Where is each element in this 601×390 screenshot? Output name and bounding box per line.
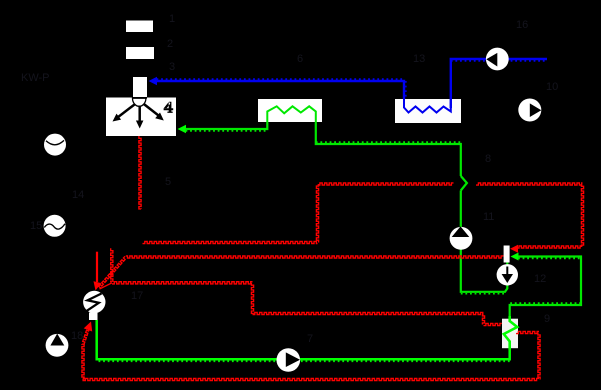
injection bar	[504, 246, 510, 263]
spray chamber 4	[106, 98, 176, 137]
label 17l	[131, 290, 143, 302]
svg-text:7: 7	[307, 333, 313, 345]
pump 8 (bottom green line)	[277, 348, 301, 372]
green pipe return to mixing valve	[510, 257, 581, 319]
pump 12 (down arrow)	[497, 264, 518, 285]
red pipe loop B	[99, 256, 504, 288]
pump 11 (riser)	[450, 226, 473, 249]
green pipe bottom run	[97, 320, 510, 361]
pump 6 (blue line)	[486, 48, 509, 71]
svg-text:14: 14	[72, 189, 84, 201]
green pipe HX1 to riser	[316, 123, 461, 177]
svg-text:16: 16	[516, 19, 528, 31]
svg-text:12: 12	[534, 273, 546, 285]
sensor circle 15	[44, 215, 66, 237]
pump symbol 7 (floating, right)	[518, 99, 541, 122]
red branch riser	[111, 248, 113, 282]
blue coil	[404, 99, 451, 113]
svg-text:8: 8	[485, 153, 491, 165]
green pipe into pump 11	[460, 191, 462, 228]
green crossover jog	[461, 176, 467, 191]
green arrowhead into spray chamber	[178, 125, 187, 133]
red solid feed line	[96, 252, 98, 282]
svg-text:10: 10	[546, 81, 558, 93]
svg-text:5: 5	[165, 176, 171, 188]
red pipe loop A part1	[143, 183, 454, 244]
green coil	[267, 106, 316, 122]
red pipe loop A part2	[476, 183, 584, 248]
svg-text:17: 17	[131, 290, 143, 302]
air duct damper plate 2	[126, 47, 154, 59]
spray arrow left	[113, 105, 135, 122]
blue pipe nozzle feed	[157, 79, 406, 99]
heat exchanger box (blue coil)	[395, 99, 461, 123]
valve 17 actuator square	[89, 313, 98, 321]
pump 18 (floating, bottom-left)	[46, 334, 69, 357]
label 11r	[483, 211, 494, 223]
label 13	[413, 53, 425, 65]
label 4	[164, 102, 174, 113]
label 5	[165, 176, 171, 188]
svg-text:1: 1	[169, 13, 175, 25]
svg-text:2: 2	[167, 38, 173, 50]
mixing valve box	[502, 319, 518, 349]
spray nozzle body 3	[133, 77, 147, 97]
svg-text:3: 3	[169, 61, 175, 73]
red arrowhead into valve square	[84, 322, 93, 332]
svg-text:11: 11	[483, 211, 494, 223]
label 14l	[72, 189, 84, 201]
svg-text:6: 6	[297, 53, 303, 65]
label 7b	[307, 333, 313, 345]
green zigzag through mixing valve	[504, 316, 517, 350]
red diagonal into valve arrow	[100, 283, 113, 289]
label KW	[21, 72, 50, 84]
spray arrow middle	[136, 106, 144, 129]
label 2	[167, 38, 173, 50]
svg-text:KW-P: KW-P	[21, 72, 50, 84]
label 6	[297, 53, 303, 65]
label 3	[169, 61, 175, 73]
red drain below spray chamber	[139, 136, 141, 209]
label 1	[169, 13, 175, 25]
label 8r	[485, 153, 491, 165]
green pipe pump 11 to pump 12	[461, 249, 508, 294]
blue arrowhead into nozzle	[149, 77, 158, 85]
red arrowhead into valve 17	[94, 281, 102, 290]
spray arrow right	[144, 104, 164, 121]
label 10	[546, 81, 558, 93]
three-way valve 17	[83, 291, 105, 313]
label 12r	[534, 273, 546, 285]
blue pipe to pump	[451, 59, 547, 108]
svg-text:15: 15	[30, 220, 42, 232]
label 18l	[71, 330, 83, 342]
red diagonal to square	[83, 326, 91, 345]
label 15l	[30, 220, 42, 232]
green pipe HX1 to chamber	[186, 123, 268, 131]
svg-text:13: 13	[413, 53, 425, 65]
red arrowhead into bar top	[510, 245, 518, 253]
green arrowhead into bar	[511, 253, 519, 261]
red pipe valve outlet bottom run	[82, 331, 540, 380]
svg-text:18: 18	[71, 330, 83, 342]
heat exchanger box (green coil)	[258, 99, 322, 122]
label 9r	[544, 313, 550, 325]
green stub bar to pump 12	[506, 263, 508, 267]
nozzle dome	[132, 98, 147, 106]
svg-text:9: 9	[544, 313, 550, 325]
sensor circle 14	[44, 134, 66, 156]
label 16	[516, 19, 528, 31]
red pipe to mixing valve	[112, 282, 502, 326]
air duct damper plate 1	[126, 21, 153, 33]
